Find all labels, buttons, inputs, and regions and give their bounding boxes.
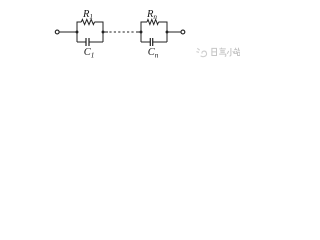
svg-text:C1: C1 [84, 47, 95, 59]
svg-text:Rn: Rn [146, 9, 157, 21]
svg-text:R1: R1 [82, 9, 93, 21]
svg-text:Cn: Cn [148, 47, 159, 59]
